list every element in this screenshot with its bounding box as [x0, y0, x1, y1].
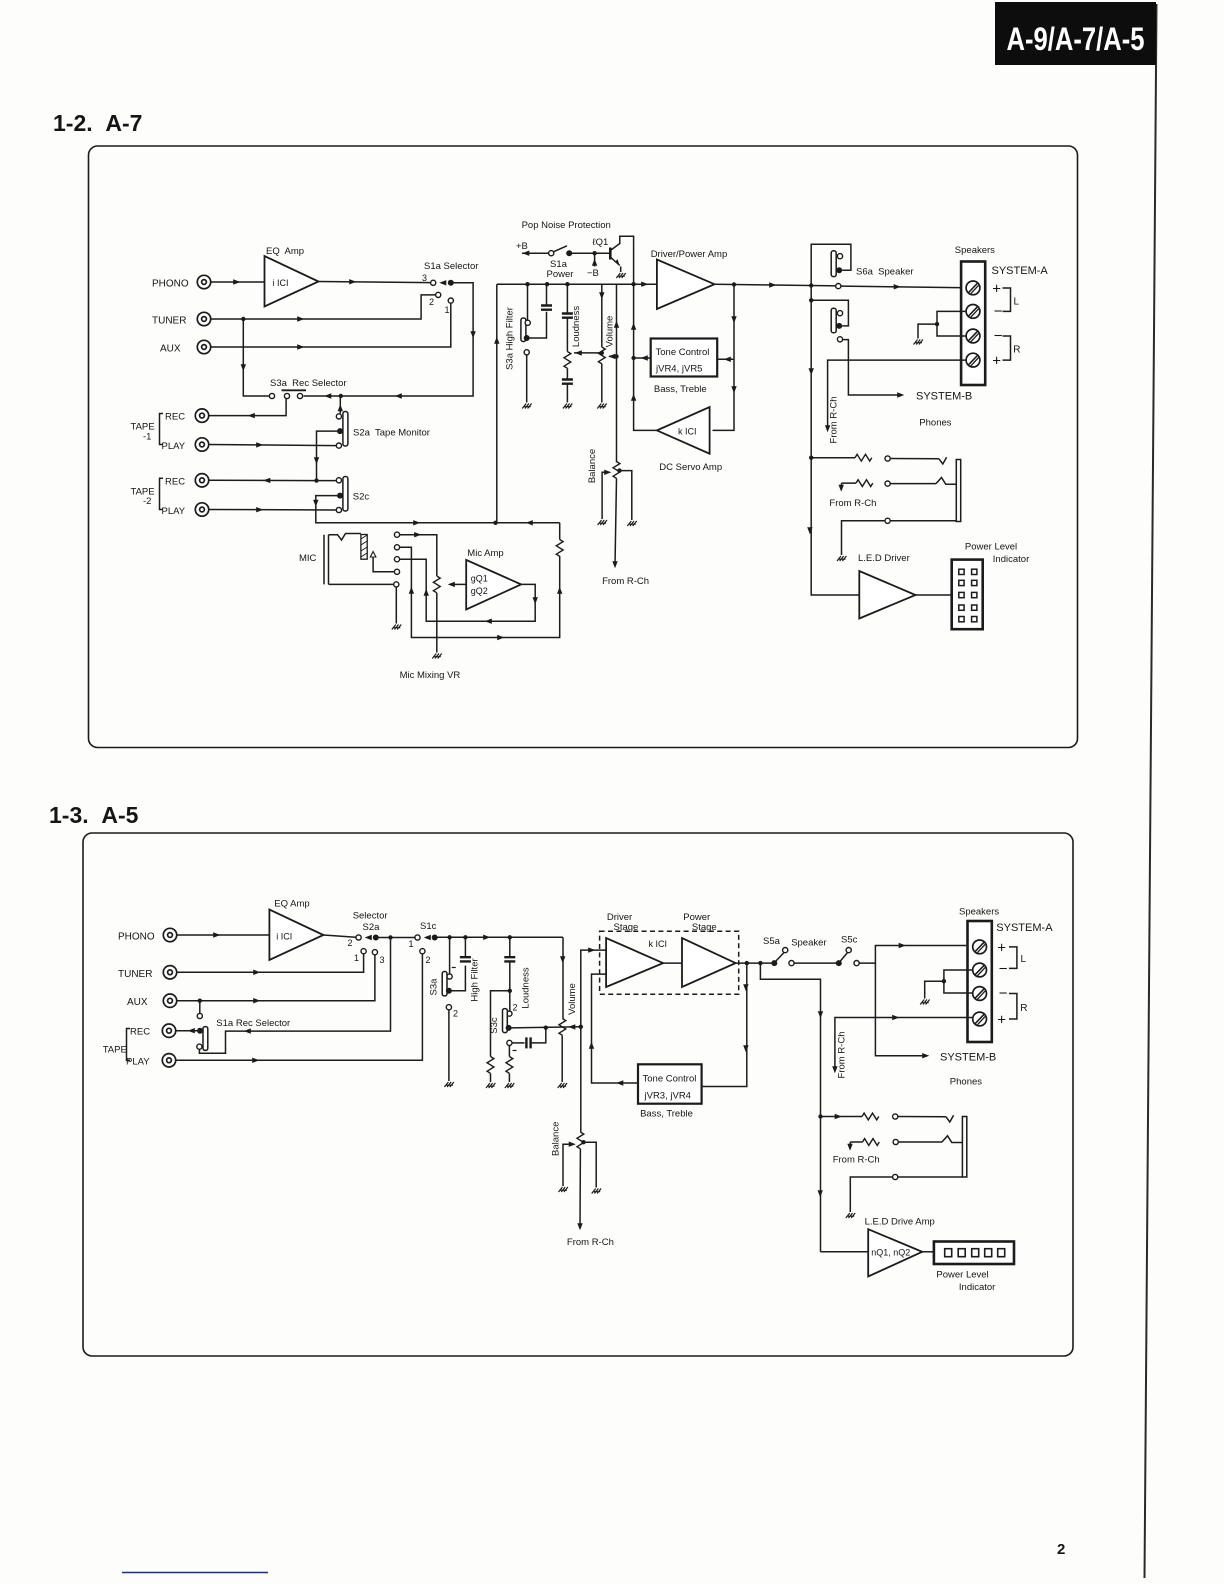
svg-text:SYSTEM-A: SYSTEM-A [996, 922, 1053, 934]
svg-text:Pop Noise Protection: Pop Noise Protection [522, 220, 611, 231]
svg-text:Mic Mixing VR: Mic Mixing VR [400, 670, 461, 681]
switch S2c [343, 477, 348, 512]
svg-text:2: 2 [1057, 1541, 1065, 1558]
wire riser mic row to filter bus [496, 284, 498, 523]
svg-text:S3a High Filter: S3a High Filter [505, 307, 516, 370]
wire S6a out to SYSTEM-A L+ [836, 284, 841, 289]
wire volume wiper riser to driver stage [581, 950, 606, 1027]
svg-text:AUX: AUX [127, 997, 148, 1008]
svg-text:2: 2 [513, 1003, 518, 1013]
switch S2a Tape Monitor [343, 412, 348, 447]
svg-text:i ICI: i ICI [273, 278, 289, 288]
svg-text:S3c: S3c [489, 1017, 500, 1034]
resistor phones R from R-Ch (A-5) [850, 1142, 862, 1149]
A-5 diagram outer border [83, 833, 1073, 1356]
wire S3c pole to volume wiper node [511, 1027, 581, 1028]
svg-text:L: L [1014, 297, 1020, 308]
svg-text:1-2. A-7: 1-2. A-7 [53, 110, 142, 136]
svg-text:Phones: Phones [950, 1077, 982, 1088]
svg-text:+B: +B [516, 241, 528, 252]
wire S2c pole to mic mixing row [316, 496, 560, 523]
wire S6b out to SYSTEM-B [837, 337, 842, 342]
wire volume wiper to amp line and balance [608, 354, 615, 359]
ground (mic mixing VR) [432, 654, 441, 659]
wire loudness tap to shunt resistor [491, 991, 510, 1057]
jack TAPE-1 PLAY [195, 438, 208, 451]
ground (balance L) [598, 520, 607, 525]
wire PLAY to S1c contact 2 [176, 954, 423, 1060]
wire rec selector pole to REC jack [176, 1030, 197, 1032]
page edge scan line [1145, 4, 1157, 1578]
svg-text:L.E.D Drive Amp: L.E.D Drive Amp [865, 1217, 935, 1228]
svg-text:Loudness: Loudness [521, 967, 532, 1008]
block Tone Control jVR3 jVR4 [638, 1064, 702, 1103]
svg-text:S1c: S1c [420, 921, 437, 932]
svg-text:L.E.D Driver: L.E.D Driver [858, 553, 910, 564]
svg-text:MIC: MIC [299, 553, 317, 564]
A-7 diagram outer border [89, 146, 1078, 748]
svg-text:Speakers: Speakers [959, 907, 999, 918]
wire S2a pole to tape-2 junction [317, 431, 338, 481]
svg-text:From R-Ch: From R-Ch [829, 498, 876, 509]
wire TUNER to S2a contact 1 [177, 954, 364, 972]
svg-text:PLAY: PLAY [162, 506, 186, 517]
phone jack body [956, 460, 960, 522]
jack TUNER (A-5) [163, 966, 176, 979]
wire R+ terminal from R-Ch [828, 360, 967, 430]
svg-text:Speaker: Speaker [791, 938, 826, 949]
jack TAPE-1 REC [195, 409, 208, 422]
svg-text:2: 2 [453, 1009, 458, 1019]
wire feedback takeoff down to tone control [713, 285, 735, 431]
svg-text:PLAY: PLAY [126, 1057, 150, 1068]
phones sleeve to ground (A-5) [850, 1177, 962, 1212]
jack AUX (A-5) [163, 994, 176, 1007]
svg-text:Speakers: Speakers [955, 245, 995, 256]
jack TUNER [197, 312, 210, 325]
svg-text:R: R [1013, 345, 1020, 356]
svg-text:PLAY: PLAY [162, 441, 186, 452]
jack TAPE REC (A-5) [162, 1024, 175, 1037]
svg-text:Selector: Selector [353, 911, 388, 922]
svg-text:Volume: Volume [605, 316, 616, 348]
ground (loudness) [563, 404, 572, 409]
svg-text:1: 1 [409, 939, 414, 949]
svg-text:Power Level: Power Level [965, 542, 1017, 553]
ground (speaker common) [914, 340, 923, 345]
svg-text:gQ1: gQ1 [471, 574, 488, 584]
ground (S3a) [522, 404, 531, 409]
wire mic pin1 to mixing VR [400, 535, 437, 576]
svg-text:Phones: Phones [919, 418, 951, 429]
phones sleeve to ground [842, 521, 957, 555]
svg-text:3: 3 [422, 273, 427, 283]
svg-text:Tone Control: Tone Control [643, 1074, 697, 1085]
svg-text:From R-Ch: From R-Ch [837, 1032, 848, 1079]
jack TAPE PLAY (A-5) [162, 1054, 175, 1067]
wire mic pin5 to sleeve and ground [329, 584, 397, 623]
capacitor high filter (A-5) [460, 957, 471, 961]
svg-text:REC: REC [130, 1027, 150, 1038]
op-amp kIC1 DC Servo Amp [657, 407, 710, 454]
svg-text:S3a: S3a [429, 978, 440, 996]
jack TAPE-2 REC [195, 474, 208, 487]
svg-text:Loudness: Loudness [571, 306, 582, 347]
svg-text:Stage: Stage [692, 922, 717, 933]
svg-text:i ICI: i ICI [276, 932, 292, 942]
svg-text:TAPE: TAPE [103, 1045, 127, 1056]
block Power Level Indicator (A-5) [934, 1242, 1014, 1265]
wire junction to TAPE-2 REC [209, 479, 317, 481]
svg-text:S5a: S5a [763, 936, 781, 947]
wire mic pin4 switch sense [373, 557, 394, 572]
svg-text:ℓQ1: ℓQ1 [593, 237, 609, 248]
svg-text:TUNER: TUNER [152, 316, 186, 327]
svg-text:1: 1 [354, 953, 359, 963]
wire EQ out to S1a contact 3 [319, 282, 431, 283]
switch S6b (lower speaker switch) [811, 286, 848, 326]
jack TAPE-2 PLAY [195, 503, 208, 516]
mic jack contact pins [394, 532, 399, 537]
ground (balance L A-5) [559, 1187, 568, 1192]
svg-text:From R-Ch: From R-Ch [833, 1155, 880, 1166]
feedback loop to tone control (A-5) [702, 963, 747, 1086]
wire mic pin2 to feedback resistor loop [400, 547, 560, 637]
wire LED amp to indicator (A-5) [922, 1251, 934, 1253]
wire rec selector to TAPE-1 REC [209, 399, 286, 416]
svg-text:SYSTEM-B: SYSTEM-B [940, 1052, 996, 1064]
wire LED driver to indicator [916, 594, 952, 596]
ground (phones sleeve A-5) [846, 1213, 855, 1218]
block Tone Control jVR4 jVR5 [651, 339, 718, 377]
switch S6a Speaker [811, 244, 851, 285]
svg-text:S3a Rec Selector: S3a Rec Selector [270, 378, 347, 389]
svg-text:1-3. A-5: 1-3. A-5 [49, 802, 139, 828]
wire speaker minus terminals to ground [918, 311, 966, 338]
ground (volume) [597, 404, 606, 409]
svg-text:PHONO: PHONO [152, 279, 189, 290]
svg-text:DC Servo Amp: DC Servo Amp [659, 462, 722, 473]
wire loudness tap to volume top [574, 352, 602, 354]
svg-text:S2c: S2c [353, 492, 370, 503]
svg-text:+: + [997, 940, 1006, 957]
wire TUNER junction down to rec selector [243, 319, 269, 396]
ground (balance R) [627, 521, 636, 526]
wire R+ terminal from R-Ch (A-5) [835, 1018, 973, 1072]
ground (Q1 emitter) [616, 273, 625, 278]
wire TAPE-1 PLAY to S2a lower contact [209, 445, 336, 446]
svg-text:1: 1 [445, 305, 450, 315]
wire TUNER to S1a contact 2 [211, 295, 436, 319]
svg-text:L: L [1021, 954, 1027, 965]
svg-text:nQ1, nQ2: nQ1, nQ2 [871, 1248, 910, 1258]
svg-text:S6a Speaker: S6a Speaker [856, 267, 914, 278]
svg-text:2: 2 [348, 938, 353, 948]
svg-text:A-9/A-7/A-5: A-9/A-7/A-5 [1007, 21, 1145, 57]
block Power Level Indicator [952, 560, 983, 630]
svg-text:Indicator: Indicator [993, 554, 1029, 565]
wire balance down to From R-Ch [615, 478, 617, 566]
svg-text:k ICI: k ICI [678, 427, 697, 437]
svg-text:Mic Amp: Mic Amp [467, 548, 503, 559]
svg-text:-1: -1 [143, 432, 151, 443]
svg-text:Bass, Treble: Bass, Treble [654, 384, 707, 395]
svg-text:Balance: Balance [587, 449, 598, 483]
header black box A-9/A-7/A-5 [995, 2, 1156, 65]
svg-text:+: + [992, 281, 1001, 298]
svg-text:S2a: S2a [363, 922, 381, 933]
svg-text:−: − [994, 328, 1003, 345]
svg-text:TUNER: TUNER [118, 969, 152, 980]
svg-text:From R-Ch: From R-Ch [602, 576, 649, 587]
svg-text:Driver/Power Amp: Driver/Power Amp [651, 249, 728, 260]
svg-text:S2a Tape Monitor: S2a Tape Monitor [353, 428, 430, 439]
svg-text:2: 2 [429, 297, 434, 307]
wire tone control to main vertical [634, 357, 651, 359]
svg-text:S5c: S5c [841, 935, 858, 946]
wire AUX to S1a contact 1 [211, 304, 451, 348]
ground (mic sleeve) [392, 625, 401, 630]
ground (S3a A-5) [444, 1082, 453, 1087]
svg-text:Power Level: Power Level [936, 1270, 988, 1281]
-B stub [594, 253, 596, 266]
svg-text:−: − [994, 303, 1003, 320]
svg-text:2: 2 [426, 955, 431, 965]
wire main left vertical to phones and LED [811, 300, 859, 595]
ground (loudness shunt) [486, 1083, 495, 1088]
wire PHONO to EQ amp [211, 281, 265, 283]
svg-text:Power: Power [547, 269, 574, 280]
svg-text:jVR4, jVR5: jVR4, jVR5 [655, 364, 702, 375]
ground (speaker common A-5) [920, 1000, 929, 1005]
svg-text:+: + [992, 353, 1001, 370]
svg-text:PHONO: PHONO [118, 932, 155, 943]
loudness series capacitor lower branch [507, 1040, 512, 1045]
svg-text:−B: −B [587, 268, 599, 279]
resistor phones L [811, 457, 855, 459]
wire main bus to driver amp [497, 283, 657, 285]
op-amp power stage (A-5) [682, 938, 736, 987]
svg-text:EQ Amp: EQ Amp [266, 246, 304, 257]
resistor phones R (from R-Ch) [842, 483, 857, 489]
wire S5a branch down to phones/LED [760, 963, 868, 1252]
wire mic pin3 amp output loop [400, 559, 535, 621]
svg-text:jVR3, jVR4: jVR3, jVR4 [644, 1091, 691, 1102]
svg-text:SYSTEM-B: SYSTEM-B [916, 391, 972, 403]
wire PHONO to EQ amp (A-5) [177, 934, 270, 936]
wire TAPE-2 PLAY to S2c lower contact [209, 509, 336, 512]
potentiometer Mic Mixing VR [433, 576, 440, 593]
wire driver output to speakers [715, 284, 839, 286]
wire AUX to S2a contact 3 [177, 955, 375, 1001]
jack AUX [197, 340, 210, 353]
svg-text:k ICI: k ICI [649, 939, 668, 949]
resistor mic mix feed [556, 540, 563, 557]
wire rec selector lower contact loop to S2a junction [199, 938, 390, 1054]
svg-text:Bass, Treble: Bass, Treble [640, 1109, 693, 1120]
svg-text:3: 3 [380, 955, 385, 965]
svg-text:−: − [999, 985, 1008, 1002]
svg-text:Indicator: Indicator [959, 1282, 995, 1293]
svg-text:S1a Rec Selector: S1a Rec Selector [216, 1018, 290, 1029]
svg-text:S1a Selector: S1a Selector [424, 261, 478, 272]
svg-text:+: + [997, 1012, 1006, 1029]
wire power switch to Q1 base [569, 252, 610, 254]
wire S5c out to SYSTEM-A and SYSTEM-B [859, 946, 966, 964]
svg-text:REC: REC [165, 476, 185, 487]
svg-text:REC: REC [165, 412, 185, 423]
svg-text:Stage: Stage [614, 922, 639, 933]
wire rec row junction down to S2a top [339, 396, 341, 413]
wire servo loop vertical [634, 284, 657, 430]
svg-text:High Filter: High Filter [470, 958, 481, 1001]
svg-text:Tone Control: Tone Control [656, 347, 710, 358]
svg-text:-2: -2 [143, 496, 151, 507]
ground (volume A-5) [558, 1083, 567, 1088]
ground (phones sleeve) [837, 556, 846, 561]
bottom blue rule [122, 1572, 268, 1574]
svg-text:From R-Ch: From R-Ch [829, 397, 840, 444]
ground (S3c branch) [505, 1083, 514, 1088]
svg-text:R: R [1020, 1003, 1027, 1014]
wire speaker minus terminals to ground (A-5) [925, 970, 973, 999]
svg-text:EQ Amp: EQ Amp [274, 899, 309, 910]
jack PHONO (A-5) [163, 928, 176, 941]
dashed block driver/power stage [600, 931, 739, 994]
wire balance down to From R-Ch (A-5) [579, 1149, 581, 1228]
resistor phones L (A-5) [821, 1116, 863, 1118]
svg-text:Balance: Balance [551, 1122, 562, 1156]
jack PHONO [197, 275, 210, 288]
phone jack body (A-5) [962, 1117, 966, 1178]
op-amp driver stage kIC1 (A-5) [606, 938, 663, 987]
ground (balance R A-5) [592, 1189, 601, 1194]
svg-text:gQ2: gQ2 [471, 586, 488, 596]
main bus S1c to volume (A-5) [435, 936, 563, 938]
wire power stage output [736, 962, 772, 964]
capacitor (high filter) [541, 306, 552, 310]
svg-text:SYSTEM-A: SYSTEM-A [992, 265, 1049, 277]
svg-text:Volume: Volume [567, 983, 578, 1015]
svg-text:AUX: AUX [160, 344, 181, 355]
wire S3c lower contact to ground resistor [508, 1046, 510, 1057]
wire tone control output to driver input [592, 974, 639, 1083]
svg-text:From R-Ch: From R-Ch [567, 1237, 614, 1248]
svg-text:−: − [999, 961, 1008, 978]
wire S1a pole down to rec selector row [304, 283, 474, 396]
